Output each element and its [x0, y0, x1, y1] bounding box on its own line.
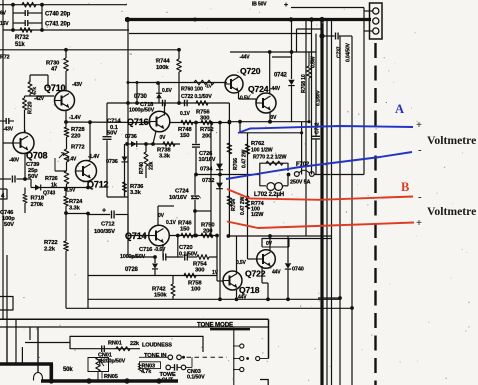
svg-text:51k: 51k [15, 42, 25, 48]
wire vertical v331 [331, 20, 333, 385]
wire top horizontal [0, 4, 127, 6]
node y144 R740 [144, 142, 148, 146]
blue measurement line A minus [226, 152, 412, 179]
wire Q722 collector [269, 236, 271, 250]
svg-text:C720: C720 [179, 245, 193, 251]
wire x179 r744 [177, 101, 181, 105]
wire vx22 [21, 347, 23, 364]
wire y308 horizontal [66, 307, 352, 309]
wire Q716 base [128, 122, 151, 124]
wire vertical v327 [326, 20, 328, 385]
wire left low vertical [6, 255, 8, 364]
svg-text:0736: 0736 [106, 159, 118, 165]
wire bracket verticals [12, 5, 14, 30]
wire to connector top [291, 7, 364, 9]
capacitor C716 [162, 254, 164, 261]
svg-text:R740: R740 [139, 162, 145, 174]
resistor R768 [308, 52, 310, 66]
wire Q714 base [128, 235, 150, 237]
bus thick vertical [320, 20, 323, 385]
svg-text:B: B [401, 180, 409, 194]
svg-text:R722: R722 [44, 240, 58, 246]
svg-text:0.1/50V: 0.1/50V [179, 251, 198, 257]
svg-text:C716: C716 [139, 247, 153, 253]
resistor R760 [194, 80, 214, 85]
resistor R746 [181, 233, 193, 238]
wire diode chain [219, 123, 221, 300]
resistor R718 [23, 194, 27, 203]
box tone mode top [0, 318, 269, 320]
switch block right [233, 328, 235, 385]
svg-text:-: - [418, 144, 422, 156]
wire y122 right [170, 122, 230, 124]
svg-text:10/16V: 10/16V [199, 157, 216, 163]
node left cap bracket [11, 3, 15, 7]
transistor Q718 [223, 271, 242, 290]
svg-text:R726: R726 [45, 176, 58, 182]
wire tone bottom corner [260, 380, 268, 385]
bus thick corner vertical [49, 364, 53, 381]
svg-text:0.4V: 0.4V [67, 157, 78, 163]
svg-text:+: + [416, 218, 422, 229]
node diode chain bottom [218, 297, 222, 301]
svg-text:R744: R744 [156, 59, 170, 65]
capacitor C720 [184, 254, 186, 261]
wire Q716 collector [164, 103, 166, 116]
svg-text:+: + [102, 208, 106, 215]
box L702 R770 [260, 163, 288, 174]
svg-text:0V: 0V [271, 115, 278, 121]
svg-text:270k: 270k [31, 202, 44, 208]
svg-text:250V 5A: 250V 5A [290, 180, 311, 186]
box loudness [70, 336, 203, 352]
wire Q722 base [248, 258, 257, 260]
left edge stub cap [0, 120, 6, 122]
capacitor C714 wire [106, 103, 108, 136]
wire Q710 base [30, 95, 54, 97]
transistor Q710 [55, 91, 75, 111]
transistor Q712 [76, 161, 97, 182]
wire left vx16 [15, 319, 17, 363]
svg-text:1000p/50V: 1000p/50V [129, 108, 155, 114]
svg-text:-0.6V: -0.6V [154, 247, 166, 253]
box Q720 Q724 [230, 51, 316, 53]
wire vertical v316 C732 branch [315, 34, 317, 137]
svg-text:0V: 0V [160, 135, 167, 141]
svg-text:100k: 100k [156, 65, 169, 71]
wire Q722 emitter [261, 266, 263, 283]
connector pin 2 [373, 18, 379, 24]
resistor R738 [163, 142, 175, 147]
svg-text:100 1/2W: 100 1/2W [251, 148, 273, 154]
node x229 y174 [228, 173, 230, 175]
transistor Q720 [225, 75, 243, 93]
svg-text:0.1V: 0.1V [166, 220, 177, 226]
resistor R756 [196, 101, 208, 106]
svg-text:150k: 150k [154, 293, 167, 299]
wire x124 vertical [124, 144, 126, 196]
wire box left vertical [87, 214, 89, 309]
wire y121 horizontal [229, 121, 309, 123]
wire y50 horizontal [0, 49, 179, 51]
bus junction [319, 17, 324, 22]
wire hop [34, 373, 43, 381]
svg-text:C714: C714 [107, 119, 121, 125]
capacitor C737 [322, 35, 335, 37]
wire y235 right [170, 235, 218, 237]
svg-text:LOUDNESS: LOUDNESS [142, 343, 172, 349]
diode Q728 [154, 257, 156, 263]
resistor R744 [177, 48, 181, 52]
svg-text:100: 100 [191, 287, 201, 293]
svg-text:44V: 44V [238, 295, 247, 301]
wire x128 low [127, 215, 129, 258]
box fragment left mid [0, 297, 13, 311]
capacitor CN03 [174, 364, 176, 371]
svg-text:A: A [395, 102, 404, 116]
svg-text:C724: C724 [175, 189, 189, 195]
svg-text:0V: 0V [158, 213, 165, 219]
wire rn05 [101, 372, 103, 379]
svg-text:3.3k: 3.3k [159, 154, 171, 160]
svg-text:10/16V: 10/16V [169, 195, 187, 201]
bus junction b1 [49, 378, 54, 383]
resistor R742 [172, 276, 174, 285]
bar under label [210, 328, 250, 330]
wire y103 horizontal [107, 102, 229, 104]
wire Q708 base [3, 142, 13, 144]
inductor L702 [267, 183, 275, 191]
resistor R736 [123, 182, 127, 192]
svg-text:44V: 44V [272, 270, 281, 276]
wire emitter join [30, 179, 32, 188]
wire q742 top [272, 56, 292, 58]
wire Q708 collector [24, 130, 26, 133]
svg-text:C740 20p: C740 20p [45, 12, 71, 18]
capacitor C724 wire [194, 211, 196, 236]
wire y257 horizontal [128, 256, 155, 258]
svg-text:0730: 0730 [134, 94, 148, 100]
svg-text:0.1/50V: 0.1/50V [187, 375, 205, 381]
wire y342 [25, 342, 70, 344]
resistor R754 [197, 255, 209, 260]
blue measurement line A plus [238, 126, 413, 133]
wire y236 horizontal [228, 235, 331, 237]
capacitor C724 [194, 175, 196, 195]
svg-text:0736: 0736 [125, 134, 137, 140]
diode Q736b [122, 157, 128, 162]
svg-text:R72: R72 [0, 55, 10, 61]
wire Q712 emitter [87, 181, 89, 188]
bus thick horizontal top [125, 18, 371, 21]
wire Q724 emitter [269, 112, 271, 122]
svg-text:-1.4V: -1.4V [88, 154, 100, 160]
svg-text:50V: 50V [4, 222, 14, 228]
wire vertical v300 [296, 29, 298, 52]
red measurement line B plus [227, 222, 414, 229]
svg-text:0742: 0742 [274, 73, 288, 79]
svg-text:47: 47 [51, 67, 57, 73]
svg-text:Q722: Q722 [245, 269, 266, 279]
svg-text:-44V: -44V [270, 86, 281, 92]
box 0V [262, 239, 332, 248]
capacitor C722 [184, 100, 186, 107]
svg-text:C737: C737 [337, 46, 343, 58]
wire Q708 emitter [24, 153, 26, 179]
svg-text:TONE MODE: TONE MODE [197, 322, 233, 329]
wire Q714 collector [157, 206, 159, 225]
capacitor C712 [88, 214, 110, 216]
bus thick bottom rail [41, 379, 178, 383]
resistor R724 [64, 196, 68, 206]
switch right c4 [233, 369, 240, 371]
wire y121 [66, 121, 128, 123]
wire vertical v311 [311, 20, 313, 175]
wire vertical v352 [351, 36, 353, 385]
wire y83 horizontal [156, 81, 160, 85]
wire tone top [0, 326, 269, 328]
svg-text:C722 0.1/50V: C722 0.1/50V [181, 94, 212, 100]
wire y299 horizontal [88, 298, 340, 300]
wire R730 branch [64, 48, 68, 52]
svg-text:1V: 1V [212, 270, 219, 276]
svg-text:Q718: Q718 [239, 285, 260, 295]
svg-text:C712: C712 [101, 222, 115, 228]
bus junction b3 [124, 378, 129, 383]
switch tone in b [177, 355, 182, 360]
label RN03 [140, 362, 161, 369]
capacitor CN01 [101, 345, 103, 352]
svg-text:150: 150 [180, 133, 190, 139]
wire Q714 emitter [162, 244, 164, 257]
wire Q718 emitter [236, 290, 238, 299]
svg-text:Q710: Q710 [44, 83, 66, 93]
wire y30 [3, 29, 129, 31]
bus junction b4 [156, 378, 161, 383]
wire x247 vertical [247, 133, 249, 236]
diode Q742 [291, 20, 293, 80]
connector pin 3 [373, 28, 379, 34]
svg-text:0740: 0740 [292, 267, 304, 273]
svg-text:0728: 0728 [125, 267, 139, 273]
svg-text:RN05: RN05 [104, 374, 118, 380]
wire connector vertical [363, 11, 365, 175]
svg-text:50k: 50k [63, 367, 73, 373]
resistor R766 [227, 143, 232, 154]
dashed boundary line [374, 43, 376, 385]
svg-text:R772: R772 [71, 145, 85, 151]
box tone right edge [268, 319, 270, 358]
svg-text:R728: R728 [71, 127, 85, 133]
diode Q736a [131, 141, 136, 147]
diode Q734 [216, 164, 223, 170]
wire x229 vertical [228, 103, 230, 236]
svg-text:R732: R732 [15, 35, 30, 41]
svg-text:IB 50V: IB 50V [252, 2, 267, 8]
svg-text:R770 2.2 1/2W: R770 2.2 1/2W [253, 155, 287, 161]
wire to connector pin3 [364, 30, 373, 32]
wire vertical v306 [305, 20, 307, 237]
wire x301 vertical [301, 122, 303, 175]
svg-text:50V: 50V [28, 174, 38, 180]
diode Q740 [287, 236, 289, 263]
resistor R758 [184, 273, 196, 278]
transistor Q724 [256, 93, 276, 113]
resistor RN03 [138, 364, 141, 372]
svg-text:R760 100: R760 100 [181, 87, 203, 93]
resistor R732 [20, 28, 32, 33]
capacitor C726 [192, 144, 200, 146]
connector pin 1 [373, 8, 379, 14]
capacitor C732 [312, 135, 320, 137]
svg-text:3.3k: 3.3k [130, 190, 142, 196]
svg-text:R720: R720 [28, 102, 34, 114]
wire tone out right [186, 366, 192, 368]
wire Q710 emitter [65, 110, 67, 122]
red measurement line B minus [227, 189, 413, 200]
svg-text:R724: R724 [69, 199, 83, 205]
wire fuse right [314, 174, 364, 176]
svg-text:0.47 2W: 0.47 2W [240, 196, 246, 215]
svg-text:3.3k: 3.3k [69, 206, 81, 212]
svg-text:-1.4V: -1.4V [69, 115, 81, 121]
bus thick bottom horizontal [0, 362, 53, 366]
resistor R730 [64, 58, 69, 71]
resistor R726 [64, 171, 69, 184]
transistor Q708 [13, 133, 34, 154]
resistor RN01 [116, 347, 130, 351]
node chain y174 [218, 173, 222, 177]
svg-text:0.6V: 0.6V [162, 88, 173, 94]
transistor Q714 [149, 225, 170, 246]
wire y33 horizontal [129, 33, 312, 35]
svg-text:Q712: Q712 [87, 180, 109, 190]
svg-text:1/2W: 1/2W [251, 212, 264, 218]
svg-text:Q720: Q720 [240, 66, 261, 76]
svg-text:R768 10: R768 10 [301, 74, 307, 93]
wire Q712 base vertical [89, 122, 91, 160]
wire left vertical [2, 0, 4, 319]
diode Q743 [35, 185, 40, 191]
switch tone out a [166, 365, 171, 370]
capacitor C714 [103, 136, 112, 138]
wire y132 horizontal [240, 132, 302, 134]
svg-text:RN01: RN01 [108, 340, 122, 346]
svg-text:47k: 47k [32, 87, 38, 95]
capacitor C740 [13, 12, 25, 14]
wire switch [139, 356, 168, 358]
switch right c2 [233, 358, 240, 360]
svg-text:0.04/50V: 0.04/50V [346, 42, 352, 62]
capacitor C739 [0, 178, 11, 180]
node y235 x217 [215, 234, 219, 238]
resistor R722 [64, 241, 69, 251]
resistor R748 [181, 120, 193, 125]
resistor R740 [145, 144, 147, 152]
svg-text:C732: C732 [314, 122, 320, 134]
svg-text:50V: 50V [107, 131, 117, 137]
wire y187 horizontal [31, 187, 90, 189]
wire x211 vertical [210, 123, 212, 236]
resistor top-left [22, 2, 36, 7]
node R724 bottom [64, 211, 68, 215]
svg-text:0.1/50V: 0.1/50V [316, 90, 322, 106]
svg-text:0732: 0732 [202, 178, 214, 184]
resistor 47k bias [28, 82, 32, 94]
svg-text:0.1V: 0.1V [180, 111, 191, 117]
switch tone in a [168, 355, 173, 360]
resistor R762 [245, 144, 249, 154]
svg-text:-44V: -44V [240, 55, 251, 61]
svg-text:Q743: Q743 [43, 191, 55, 197]
wire vertical x128 [127, 20, 129, 236]
diode Q732 [216, 183, 223, 189]
resistor R772 pot [64, 149, 69, 162]
svg-text:0V: 0V [266, 241, 273, 247]
capacitor C726 wire [195, 123, 197, 144]
wire pot down [97, 372, 99, 382]
wire y144 horizontal [125, 142, 129, 146]
wire x240 stub [239, 122, 241, 133]
svg-text:150: 150 [180, 227, 190, 233]
svg-text:Voltmetre: Voltmetre [427, 205, 476, 218]
pot 50k box [88, 358, 109, 372]
capacitor C741 [13, 22, 25, 24]
resistor R720 [23, 98, 27, 110]
svg-text:Q708: Q708 [26, 151, 48, 161]
svg-text:22k: 22k [149, 162, 155, 170]
svg-text:4.7k: 4.7k [141, 369, 152, 375]
capacitor C718 [162, 100, 164, 107]
switch tone out b [181, 365, 186, 370]
svg-text:R766: R766 [233, 158, 239, 170]
svg-text:22k: 22k [130, 341, 140, 347]
connector J1 [370, 3, 383, 39]
svg-text:+: + [284, 2, 288, 9]
wire Q724 collector up [269, 52, 271, 93]
svg-text:TONE IN: TONE IN [144, 353, 166, 359]
svg-text:R752: R752 [200, 127, 214, 133]
switch right c1 [233, 345, 240, 347]
resistor R764 [227, 196, 232, 206]
wire y174 horizontal [196, 174, 260, 176]
resistor R774 [245, 199, 249, 209]
svg-text:-43V: -43V [72, 82, 83, 88]
svg-text:-42V: -42V [34, 96, 45, 102]
resistor R750 [201, 233, 213, 238]
svg-text:R764: R764 [231, 199, 237, 211]
svg-text:L702 2.2µH: L702 2.2µH [254, 192, 284, 198]
switch right c3 [256, 356, 260, 360]
diode Q730 [156, 94, 162, 99]
svg-text:-40V: -40V [9, 158, 20, 164]
svg-text:100/35V: 100/35V [94, 229, 115, 235]
fuse F702 [294, 172, 299, 177]
box fragment left top [0, 188, 7, 190]
resistor R752 [201, 120, 213, 125]
svg-text:1200p/50V: 1200p/50V [100, 358, 126, 364]
wire vx38 [37, 327, 39, 373]
node fuse [287, 173, 291, 177]
svg-text:300: 300 [195, 268, 205, 274]
svg-text:R718: R718 [31, 196, 45, 202]
wire Q718 base [217, 280, 224, 282]
svg-text:-43V: -43V [3, 127, 14, 133]
resistor R728 [65, 122, 67, 127]
transistor Q722 [257, 250, 276, 269]
wire Q718 collector [236, 236, 238, 274]
node C726 top [194, 121, 198, 125]
